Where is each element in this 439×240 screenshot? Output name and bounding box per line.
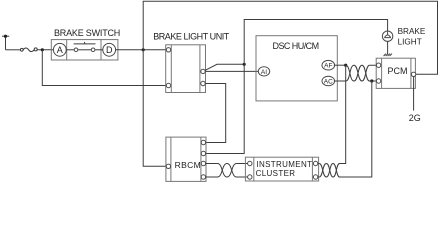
switch contact blade	[74, 42, 96, 44]
wire RBCM pin3 to twist	[205, 163, 217, 165]
node J1	[41, 48, 44, 51]
instrument cluster box	[245, 157, 318, 181]
node J4	[344, 64, 347, 67]
node J3	[243, 63, 246, 66]
svg-text:AF: AF	[324, 63, 332, 70]
wire BLU output diagonal to node J3	[203, 64, 244, 71]
wire J3 down to RBCM pin 2	[206, 64, 245, 153]
pin PCM upper left	[376, 63, 380, 67]
wire inside switch	[66, 49, 103, 51]
svg-text:A: A	[57, 45, 63, 55]
pin BLU right lower	[201, 81, 205, 85]
svg-text:BRAKE LIGHT UNIT: BRAKE LIGHT UNIT	[153, 31, 230, 41]
terminal AI	[258, 67, 269, 76]
pin PCM right	[411, 72, 415, 76]
pin RBCM right 1	[201, 140, 205, 144]
RBCM box	[166, 137, 206, 181]
svg-text:D: D	[106, 45, 113, 55]
pin cluster right upper	[313, 161, 317, 165]
pin BLU left lower	[166, 83, 170, 87]
wire J1 down and right to brake light unit lower pin	[42, 50, 166, 86]
inline connector C-01	[20, 48, 37, 52]
wire BLU output to AI	[203, 70, 258, 72]
pin RBCM right 3	[201, 161, 205, 165]
wire BLU lower output down	[203, 84, 226, 143]
node J2	[142, 48, 145, 51]
svg-text:2G: 2G	[409, 113, 421, 123]
svg-text:BRAKE SWITCH: BRAKE SWITCH	[54, 28, 120, 38]
pin RBCM right 4	[201, 175, 205, 179]
wire J5 down to instrument cluster twisted pair	[339, 81, 372, 177]
terminal AF	[322, 60, 335, 70]
svg-text:RBCM: RBCM	[175, 160, 201, 170]
terminal A	[53, 43, 66, 56]
svg-text:LIGHT: LIGHT	[398, 37, 422, 46]
wire J3 up over to brake light bulb	[244, 20, 387, 65]
svg-text:BRAKE: BRAKE	[398, 27, 426, 36]
DSC HU/CM box	[256, 36, 337, 101]
svg-text:DSC HU/CM: DSC HU/CM	[273, 41, 319, 51]
brake light unit box	[166, 45, 206, 93]
wire RBCM pin4 to twist	[205, 176, 217, 178]
twisted pair cluster to right	[319, 164, 372, 178]
wire PCM to ground 2G	[413, 76, 415, 110]
svg-text:PCM: PCM	[388, 66, 408, 76]
wire AC to twisted pair	[334, 80, 346, 82]
terminal AC	[322, 76, 335, 86]
switch contact points	[74, 48, 95, 52]
power source stub (battery feed)	[2, 36, 9, 50]
pin RBCM right 2	[201, 151, 205, 155]
pin BLU right upper	[201, 69, 205, 73]
brake switch box	[51, 40, 118, 60]
node J5	[370, 79, 373, 82]
pin cluster right lower	[313, 175, 317, 179]
svg-text:AI: AI	[261, 69, 267, 76]
wire cluster pins to twist	[318, 164, 320, 178]
wire J2 up over to PCM right pin	[143, 1, 437, 74]
brake light bulb	[382, 31, 392, 41]
pin RBCM left	[166, 164, 170, 168]
wire J2 down to RBCM left pin	[143, 50, 166, 167]
pin cluster left upper	[248, 161, 252, 165]
terminal D	[103, 43, 116, 56]
svg-text:INSTRUMENT: INSTRUMENT	[256, 160, 312, 169]
twisted pair RBCM to instrument cluster	[218, 164, 248, 178]
wire J4 down to instrument cluster twisted pair	[339, 65, 346, 163]
pin PCM lower left	[376, 79, 380, 83]
pin cluster left lower	[248, 175, 252, 179]
twisted pair DSC to PCM	[346, 65, 377, 81]
svg-text:CLUSTER: CLUSTER	[256, 169, 296, 178]
wire D to brake light unit	[115, 49, 166, 51]
wire connector to brake switch	[37, 49, 53, 51]
wire AF to node J4	[334, 64, 346, 66]
chassis ground for bulb	[384, 54, 392, 56]
wire bulb to ground	[387, 41, 389, 53]
svg-text:AC: AC	[324, 79, 333, 86]
wire feed to connector	[6, 49, 21, 51]
node power dot	[4, 35, 7, 38]
pin BLU left upper	[166, 48, 170, 52]
PCM box	[376, 58, 415, 88]
